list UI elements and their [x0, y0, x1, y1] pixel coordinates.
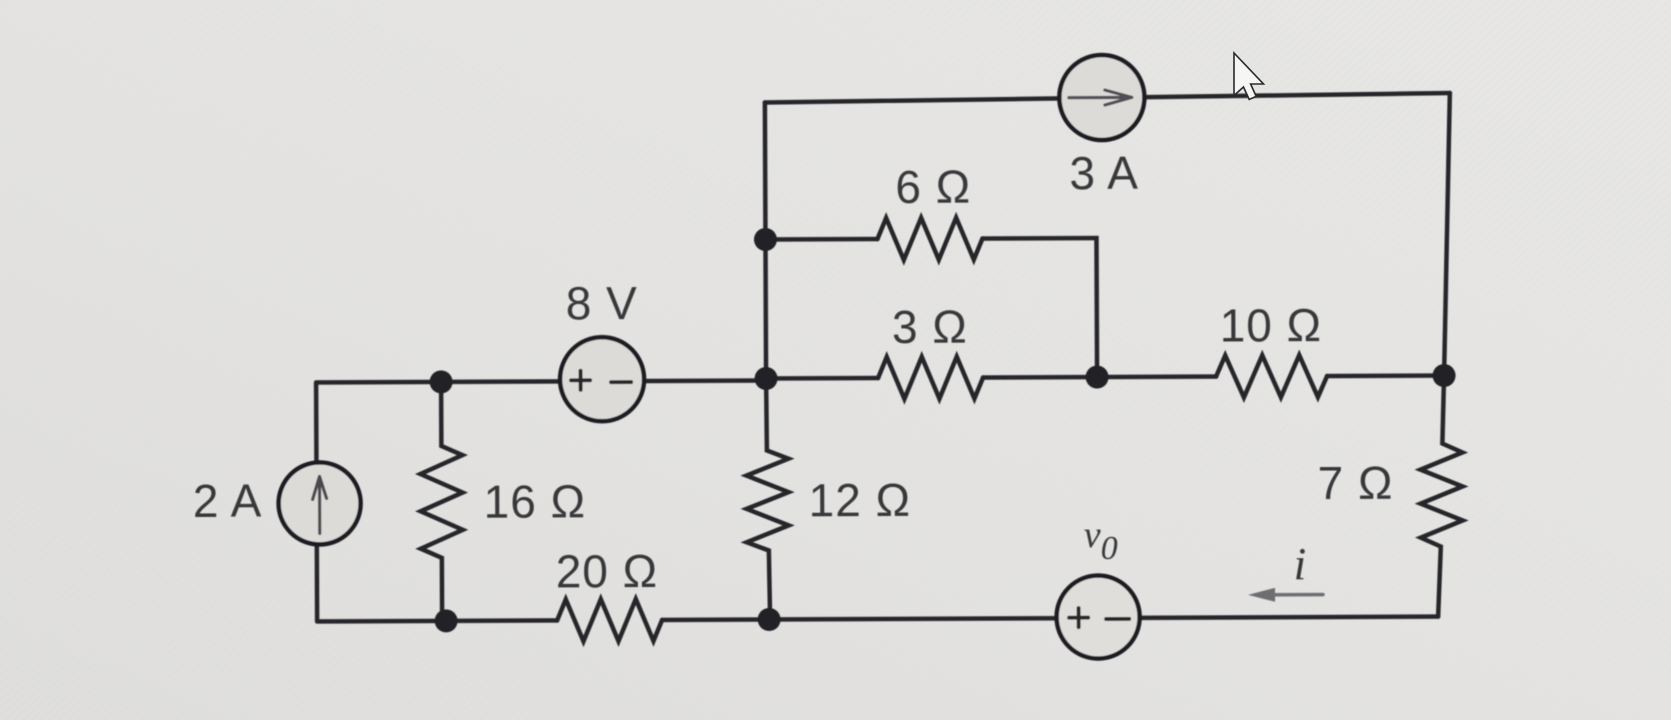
svg-text:i: i — [1293, 538, 1306, 589]
node: 12ohm bottom junction — [758, 608, 781, 631]
V1 plus sign — [571, 371, 590, 390]
wire: 10ohm right lead to right column node — [1327, 373, 1444, 378]
voltage source V1 8V circle — [560, 337, 644, 421]
svg-text:8 V: 8 V — [566, 277, 638, 329]
voltage source v0 circle on bottom rail — [1056, 575, 1139, 658]
mouse cursor pointer — [1234, 53, 1264, 100]
resistor R 6ohm zigzag — [877, 218, 982, 260]
V1 minus sign — [611, 380, 631, 384]
wire: right column top (top corner down to 10ohm node) — [1443, 93, 1451, 376]
resistor R 10ohm zigzag — [1216, 355, 1327, 397]
wire: 6ohm right lead and corner down to 3ohm node — [982, 238, 1097, 377]
resistor R 7ohm vertical right column with leads — [1420, 375, 1463, 616]
wire: bottom rail right section through v0 source — [767, 617, 1438, 620]
wire: middle rail from 16ohm node through 8V to centre node — [441, 380, 766, 381]
svg-text:3 A: 3 A — [1069, 147, 1139, 199]
wire: centre vertical branch top (centre node up to top rail corner) — [765, 102, 766, 378]
wire: rail from 3ohm node to 10ohm — [1097, 374, 1216, 379]
node: right column 10ohm junction — [1433, 364, 1456, 387]
resistor R 16ohm vertical branch with leads — [420, 382, 463, 621]
svg-text:6 Ω: 6 Ω — [895, 161, 971, 213]
svg-text:3 Ω: 3 Ω — [892, 301, 968, 353]
resistor R 12ohm vertical branch with leads — [746, 378, 789, 619]
resistor R 20ohm zigzag (bottom rail) — [557, 599, 662, 641]
current source I1 2A circle — [278, 462, 360, 544]
wire: 3ohm right lead to node — [983, 375, 1097, 380]
node: centre 6ohm junction — [754, 228, 777, 251]
I2 arrow right — [1069, 90, 1132, 105]
current source I2 3A circle on top rail — [1059, 55, 1144, 140]
svg-text:7 Ω: 7 Ω — [1318, 457, 1394, 509]
svg-text:16 Ω: 16 Ω — [484, 475, 587, 527]
svg-text:12 Ω: 12 Ω — [808, 474, 911, 526]
resistor R 3ohm zigzag — [878, 357, 983, 399]
current source I1 arrow up — [313, 476, 327, 533]
wire: middle rail centre node to 3ohm — [766, 376, 878, 381]
wire: left loop (left column, top segment to 16ohm, bottom rail left) — [316, 382, 442, 622]
node: 16ohm bottom junction — [435, 609, 458, 632]
current arrow i on bottom right — [1273, 593, 1323, 597]
wire: bottom rail with 20 ohm gap handled by resistor — [442, 619, 767, 620]
svg-text:20 Ω: 20 Ω — [556, 545, 659, 597]
v0 plus sign — [1069, 608, 1088, 627]
wire: top rail from corner to right corner — [765, 93, 1450, 102]
node: centre middle-rail junction — [755, 367, 778, 390]
wire: 6ohm branch left lead from middle vertical — [765, 237, 877, 242]
svg-text:2 A: 2 A — [193, 475, 263, 527]
svg-text:10 Ω: 10 Ω — [1220, 299, 1323, 351]
v0 minus sign — [1106, 617, 1129, 621]
node: 3ohm-10ohm junction — [1086, 366, 1109, 389]
node: 16ohm top junction — [430, 370, 453, 393]
